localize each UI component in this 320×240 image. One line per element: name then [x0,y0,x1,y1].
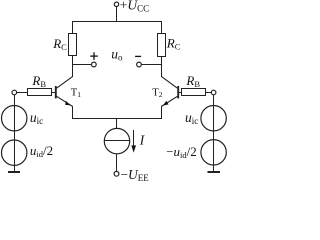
svg-text:RC: RC [166,36,181,52]
wire left emitter and emitter bus [73,106,162,119]
label + polarity [90,52,98,60]
current source I [104,128,129,153]
terminal left input [12,90,17,95]
wire + output stub [73,64,92,66]
resistor RB left [28,89,52,96]
source uic right [201,106,226,131]
terminal uo plus [92,62,97,67]
terminal uo minus [137,62,142,67]
svg-text:−UEE: −UEE [120,167,149,183]
wire left collector [72,56,74,77]
current arrow head [131,145,136,152]
terminal -UEE [114,171,119,176]
ground right [208,171,221,173]
transistor T1 [56,77,73,107]
svg-text:RB: RB [185,73,200,89]
source uid/2 left [2,140,27,165]
terminal right input [211,90,216,95]
wire top bus [73,22,162,34]
transistor T2 [162,77,179,107]
svg-text:uo: uo [111,46,123,62]
wire right collector [161,57,163,77]
svg-text:uid/2: uid/2 [30,143,53,159]
label - polarity [135,55,141,57]
current arrow shaft [133,130,135,147]
svg-text:−uid/2: −uid/2 [166,144,197,160]
svg-text:T2: T2 [152,87,162,99]
svg-text:+UCC: +UCC [120,0,149,14]
wire - output stub [141,64,161,66]
current source chord [105,140,130,142]
wire left base leads [16,92,55,94]
source uic left [2,106,27,131]
wire right source column [213,95,215,172]
source uid/2 right [201,140,226,165]
resistor RC left [69,34,77,56]
wire -UEE stub [116,154,118,172]
wire left source column [14,95,16,172]
wire tail stub [116,119,118,129]
wire +UCC stub [116,7,118,22]
svg-text:uic: uic [185,110,198,126]
svg-text:I: I [139,132,146,147]
terminal +UCC [114,2,118,6]
resistor RC right [158,34,166,57]
svg-text:T1: T1 [71,87,81,99]
svg-text:uic: uic [30,110,43,126]
wire right base leads [179,92,211,94]
svg-text:RC: RC [52,36,67,52]
svg-text:RB: RB [31,73,46,89]
ground left [8,171,20,173]
resistor RB right [182,89,206,96]
